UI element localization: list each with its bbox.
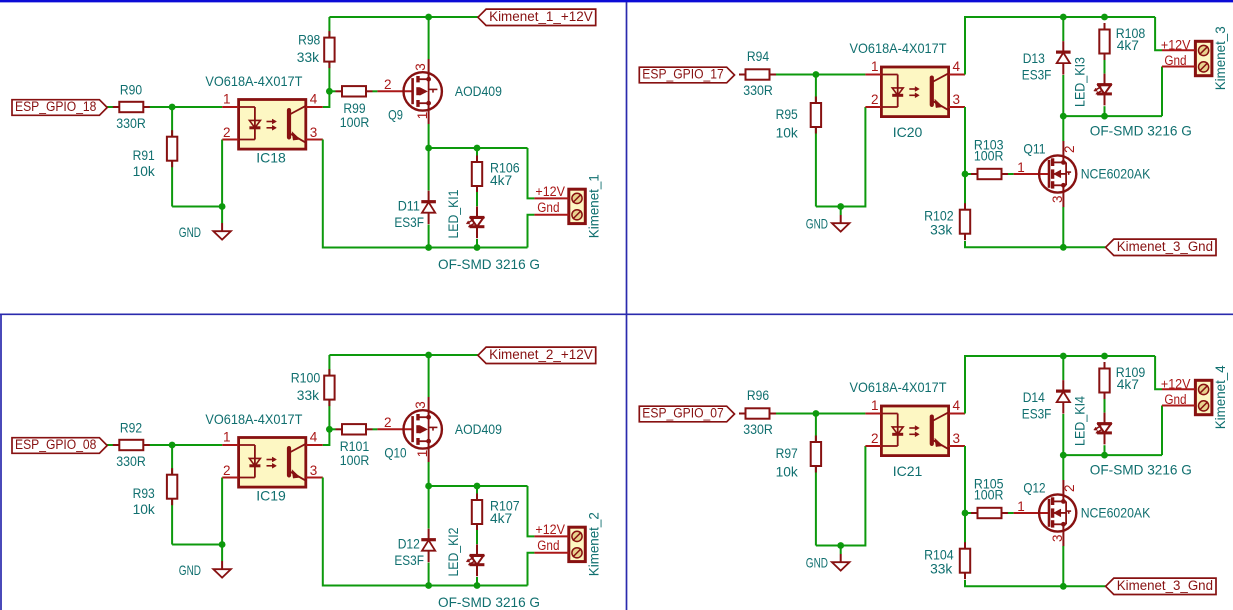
svg-text:4k7: 4k7 — [490, 510, 512, 526]
hierarchical input label ESP_GPIO_08 — [12, 437, 107, 453]
transistor Q11 NCE6020AK N-MOSFET — [1014, 141, 1151, 208]
svg-text:R90: R90 — [120, 82, 142, 98]
svg-text:GND: GND — [179, 562, 201, 578]
wire output to connector +12V pin — [528, 148, 535, 198]
svg-text:Gnd: Gnd — [1164, 53, 1186, 68]
svg-text:10k: 10k — [133, 501, 156, 517]
wire opto pin4 to gate node — [323, 91, 330, 107]
svg-text:VO618A-4X017T: VO618A-4X017T — [205, 73, 302, 89]
junction bottom rail at LED — [474, 582, 481, 589]
junction at R pulldown tap — [169, 442, 176, 449]
svg-text:OF-SMD 3216 G: OF-SMD 3216 G — [1090, 462, 1192, 478]
IC18 pin 2 — [222, 139, 238, 141]
svg-text:R94: R94 — [747, 48, 769, 64]
resistor R93 — [133, 468, 178, 517]
svg-text:2: 2 — [384, 415, 392, 430]
svg-text:R100: R100 — [291, 369, 321, 385]
svg-text:ESP_GPIO_07: ESP_GPIO_07 — [642, 406, 723, 421]
wire ESP_GPIO_17 to opto — [741, 74, 866, 76]
svg-text:R98: R98 — [298, 31, 320, 47]
IC18 pin 4 — [306, 106, 323, 108]
IC18 pin 1 — [222, 106, 238, 108]
wire pulldown to gnd node — [816, 545, 841, 547]
svg-text:2: 2 — [1062, 146, 1077, 154]
svg-text:1: 1 — [415, 450, 430, 458]
junction at pulldown tap — [813, 410, 820, 417]
junction at gnd node — [837, 542, 844, 549]
IC19 pin 3 — [306, 477, 323, 479]
svg-text:100R: 100R — [340, 452, 370, 468]
resistor R108 — [1099, 23, 1145, 60]
wire source down to return rail — [1062, 207, 1064, 247]
global label Kimenet_3_Gnd — [1106, 239, 1216, 256]
svg-text:4k7: 4k7 — [1117, 376, 1139, 392]
svg-text:2: 2 — [1062, 485, 1077, 493]
global label Kimenet_2_+12V — [478, 347, 596, 364]
wire flyback diode top — [1062, 17, 1064, 41]
sheet vertical divider — [626, 2, 628, 610]
resistor R101 — [329, 424, 377, 468]
wire bottom return rail — [323, 478, 528, 586]
transistor Q12 NCE6020AK N-MOSFET — [1014, 480, 1151, 547]
junction at gate divider — [326, 88, 333, 95]
junction load rail at diode — [1060, 113, 1067, 120]
wire gate node up to +12V rail — [328, 17, 330, 91]
junction at gnd node — [219, 541, 226, 548]
junction at pulldown tap — [813, 71, 820, 78]
wire return rail — [965, 580, 1106, 586]
wire drain to +12V rail — [428, 355, 430, 397]
svg-text:100R: 100R — [974, 487, 1004, 503]
diode D11 ES3F — [394, 191, 436, 230]
resistor R97 — [776, 436, 822, 480]
svg-text:NCE6020AK: NCE6020AK — [1081, 166, 1151, 182]
wire LED branch top — [476, 148, 478, 156]
resistor R102 gate pulldown — [924, 174, 970, 240]
wire resistor to LED — [1104, 399, 1106, 413]
svg-text:4k7: 4k7 — [490, 172, 512, 188]
svg-text:GND: GND — [806, 554, 828, 570]
hierarchical input label ESP_GPIO_18 — [12, 99, 107, 115]
svg-text:Kimenet_2: Kimenet_2 — [585, 512, 601, 576]
wire return rail — [965, 241, 1106, 247]
svg-text:1: 1 — [1017, 499, 1025, 514]
svg-text:Gnd: Gnd — [1164, 392, 1186, 407]
svg-text:1: 1 — [871, 398, 879, 413]
svg-text:330R: 330R — [116, 453, 146, 469]
resistor R99 — [329, 86, 377, 130]
svg-text:Kimenet_3_Gnd: Kimenet_3_Gnd — [1117, 239, 1213, 254]
IC19 pin 1 — [222, 444, 238, 446]
wire pulldown to gnd node — [172, 544, 222, 546]
svg-text:LED_KI4: LED_KI4 — [1071, 396, 1087, 446]
svg-text:2: 2 — [871, 431, 879, 446]
IC18 pin 3 — [306, 139, 323, 141]
optocoupler IC20 VO618A-4X017T — [850, 40, 966, 140]
junction bottom rail at diode — [425, 582, 432, 589]
junction at MOSFET drain rail — [425, 14, 432, 21]
svg-text:Q9: Q9 — [388, 106, 403, 122]
wire connector Gnd pin to load rail — [1161, 406, 1163, 456]
svg-text:Gnd: Gnd — [537, 538, 559, 553]
resistor R104 gate pulldown — [924, 513, 970, 579]
svg-text:10k: 10k — [133, 163, 156, 179]
svg-text:ESP_GPIO_08: ESP_GPIO_08 — [15, 437, 96, 452]
wire output node rail — [429, 147, 528, 149]
junction at gate divider — [326, 426, 333, 433]
resistor R106 — [472, 156, 520, 193]
transistor Q10 AOD409 P-MOSFET — [377, 397, 502, 462]
junction load rail at diode — [1060, 452, 1067, 459]
connector Kimenet_3 screw terminal — [1161, 26, 1228, 90]
junction load rail at LED — [1101, 452, 1108, 459]
svg-text:R92: R92 — [120, 420, 142, 436]
wire flyback diode top — [428, 486, 430, 529]
wire bottom rail to connector Gnd pin — [528, 553, 535, 586]
svg-text:Kimenet_4: Kimenet_4 — [1212, 365, 1228, 429]
resistor R96 — [739, 387, 776, 437]
svg-text:Kimenet_3_Gnd: Kimenet_3_Gnd — [1117, 578, 1213, 593]
svg-text:R97: R97 — [776, 445, 798, 461]
svg-text:ES3F: ES3F — [1022, 406, 1052, 422]
LED LED_KI1 — [445, 189, 484, 238]
wire bottom return rail — [323, 140, 528, 248]
svg-text:+12V: +12V — [1161, 37, 1191, 52]
junction bottom rail at diode — [425, 244, 432, 251]
connector Kimenet_4 screw terminal — [1161, 365, 1228, 429]
resistor R92 — [113, 420, 150, 469]
IC19 pin 4 — [306, 444, 323, 446]
junction output at LED branch — [474, 483, 481, 490]
wire source to output node — [428, 124, 430, 148]
IC20 pin 2 — [865, 106, 881, 108]
wire +12V rail to connector +12V pin — [1155, 356, 1162, 389]
global label Kimenet_3_Gnd — [1106, 578, 1216, 595]
optocoupler IC19 VO618A-4X017T — [205, 411, 322, 504]
Kimenet_3 pin +12V — [1162, 49, 1195, 51]
svg-text:R91: R91 — [133, 147, 155, 163]
sheet top border line — [0, 0, 1233, 2]
svg-text:3: 3 — [953, 92, 961, 107]
svg-text:33k: 33k — [930, 561, 953, 577]
svg-text:33k: 33k — [297, 49, 320, 65]
resistor R94 — [739, 48, 776, 98]
svg-text:2: 2 — [871, 92, 879, 107]
IC21 pin 4 — [949, 413, 965, 415]
svg-text:3: 3 — [1050, 195, 1065, 203]
svg-text:100R: 100R — [340, 114, 370, 130]
IC21 pin 1 — [865, 413, 881, 415]
svg-text:Kimenet_3: Kimenet_3 — [1212, 26, 1228, 90]
svg-text:D13: D13 — [1023, 50, 1045, 66]
LED LED_KI4 — [1071, 396, 1112, 446]
junction at gate node — [962, 171, 969, 178]
wire flyback diode bottom — [1062, 414, 1064, 455]
svg-text:100R: 100R — [974, 148, 1004, 164]
resistor R98 — [297, 31, 335, 68]
sheet horizontal divider — [0, 313, 1233, 315]
IC19 pin 2 — [222, 477, 238, 479]
junction return rail at source — [1060, 583, 1067, 590]
wire gnd node to opto pin2 — [841, 107, 866, 207]
wire opto pin2 down to gnd node — [221, 140, 223, 207]
svg-text:33k: 33k — [930, 222, 953, 238]
svg-text:1: 1 — [223, 430, 231, 445]
hierarchical input label ESP_GPIO_07 — [639, 406, 734, 422]
wire output to connector +12V pin — [528, 486, 535, 536]
svg-text:ESP_GPIO_18: ESP_GPIO_18 — [15, 99, 96, 114]
transistor Q9 AOD409 P-MOSFET — [377, 59, 502, 124]
svg-text:2: 2 — [223, 125, 231, 140]
svg-text:GND: GND — [806, 215, 828, 231]
svg-text:Gnd: Gnd — [537, 200, 559, 215]
wire ESP_GPIO_18 to R row — [107, 106, 223, 108]
svg-text:330R: 330R — [116, 115, 146, 131]
wire bottom rail to connector Gnd pin — [528, 215, 535, 248]
wire load rail — [1063, 454, 1162, 456]
IC21 pin 2 — [865, 445, 881, 447]
junction return rail at source — [1060, 244, 1067, 251]
svg-text:1: 1 — [223, 92, 231, 107]
wire gnd node to opto pin2 — [841, 446, 866, 546]
svg-text:OF-SMD 3216 G: OF-SMD 3216 G — [1090, 123, 1192, 139]
wire opto pin3 down to gate node — [964, 107, 966, 174]
svg-text:Kimenet_1: Kimenet_1 — [585, 174, 601, 238]
wire resistor to LED — [1104, 60, 1106, 74]
wire flyback diode top — [1062, 356, 1064, 380]
svg-text:Kimenet_2_+12V: Kimenet_2_+12V — [489, 347, 593, 362]
svg-text:GND: GND — [179, 224, 201, 240]
svg-text:4: 4 — [953, 59, 961, 74]
svg-text:Q12: Q12 — [1023, 480, 1045, 496]
diode D12 ES3F — [394, 529, 436, 568]
IC20 pin 1 — [865, 74, 881, 76]
wire ESP_GPIO_08 to R row — [107, 444, 223, 446]
svg-text:3: 3 — [310, 463, 318, 478]
svg-text:LED_KI2: LED_KI2 — [445, 527, 461, 576]
svg-text:33k: 33k — [297, 387, 320, 403]
connector Kimenet_1 screw terminal — [534, 174, 601, 238]
wire flyback diode bottom — [1062, 75, 1064, 116]
ground symbol GND — [806, 207, 850, 232]
wire drain to +12V rail — [428, 17, 430, 59]
Kimenet_3 pin Gnd — [1162, 66, 1195, 68]
svg-text:10k: 10k — [776, 125, 799, 141]
wire opto pin4 up to +12V rail — [965, 17, 1155, 75]
svg-text:R93: R93 — [133, 485, 155, 501]
svg-text:NCE6020AK: NCE6020AK — [1081, 505, 1151, 521]
svg-text:OF-SMD 3216 G: OF-SMD 3216 G — [438, 594, 540, 610]
global label Kimenet_1_+12V — [478, 9, 596, 26]
svg-text:IC21: IC21 — [893, 463, 923, 479]
svg-text:VO618A-4X017T: VO618A-4X017T — [850, 379, 947, 395]
optocoupler IC21 VO618A-4X017T — [850, 379, 966, 479]
resistor R90 — [113, 82, 150, 131]
svg-text:330R: 330R — [743, 421, 773, 437]
junction rail at LED resistor — [1101, 353, 1108, 360]
svg-text:IC18: IC18 — [256, 150, 286, 166]
junction at MOSFET drain rail — [425, 352, 432, 359]
Kimenet_1 pin Gnd — [534, 214, 568, 216]
resistor R91 — [133, 130, 178, 179]
wire +12V rail — [329, 16, 478, 18]
diode D14 ES3F — [1022, 380, 1071, 421]
wire load rail — [1063, 115, 1162, 117]
svg-text:3: 3 — [413, 401, 428, 409]
svg-text:10k: 10k — [776, 464, 799, 480]
svg-text:+12V: +12V — [535, 184, 565, 199]
junction at gnd node — [219, 203, 226, 210]
IC20 pin 3 — [949, 106, 965, 108]
svg-text:+12V: +12V — [1161, 376, 1191, 391]
svg-text:D12: D12 — [398, 536, 420, 552]
wire drain up to load rail — [1062, 116, 1064, 141]
svg-text:4: 4 — [953, 398, 961, 413]
svg-text:LED_KI3: LED_KI3 — [1071, 57, 1087, 107]
wire resistor to LED — [476, 530, 478, 544]
hierarchical input label ESP_GPIO_17 — [639, 67, 734, 83]
junction rail at flyback diode — [1060, 353, 1067, 360]
wire flyback diode bottom — [428, 225, 430, 248]
wire LED to load rail — [1104, 106, 1106, 116]
svg-text:+12V: +12V — [535, 522, 565, 537]
svg-text:D14: D14 — [1023, 389, 1045, 405]
wire drain up to load rail — [1062, 455, 1064, 480]
wire opto pin2 down to gnd node — [221, 478, 223, 545]
wire opto pin4 to gate node — [323, 429, 330, 445]
optocoupler IC18 VO618A-4X017T — [205, 73, 322, 166]
svg-text:AOD409: AOD409 — [455, 421, 502, 437]
LED LED_KI2 — [445, 527, 484, 576]
wire pulldown vertical — [171, 107, 173, 207]
Kimenet_1 pin +12V — [534, 197, 568, 199]
LED LED_KI3 — [1071, 57, 1112, 107]
wire LED to bottom rail — [476, 239, 478, 248]
svg-text:R95: R95 — [776, 106, 798, 122]
svg-text:ES3F: ES3F — [394, 552, 424, 568]
svg-text:3: 3 — [413, 63, 428, 71]
wire ESP_GPIO_07 to opto — [741, 413, 866, 415]
resistor R103 — [965, 137, 1014, 180]
junction at gate node — [962, 510, 969, 517]
svg-text:2: 2 — [384, 77, 392, 92]
wire source down to return rail — [1062, 546, 1064, 586]
wire pulldown vertical — [815, 75, 817, 207]
svg-text:VO618A-4X017T: VO618A-4X017T — [205, 411, 302, 427]
wire pulldown vertical — [171, 445, 173, 545]
wire opto pin3 down to gate node — [964, 446, 966, 513]
resistor R105 — [965, 476, 1014, 519]
junction rail at LED resistor — [1101, 14, 1108, 21]
svg-text:Q10: Q10 — [384, 444, 406, 460]
connector Kimenet_2 screw terminal — [534, 512, 601, 576]
svg-text:R96: R96 — [747, 387, 769, 403]
junction output at source — [425, 145, 432, 152]
svg-text:ES3F: ES3F — [1022, 67, 1052, 83]
ground symbol GND — [179, 545, 231, 578]
resistor R100 — [291, 369, 335, 406]
svg-text:OF-SMD 3216 G: OF-SMD 3216 G — [438, 256, 540, 272]
Kimenet_2 pin Gnd — [534, 552, 568, 554]
svg-text:3: 3 — [310, 125, 318, 140]
wire +12V rail to connector +12V pin — [1155, 17, 1162, 50]
resistor R95 — [776, 97, 822, 141]
sheet left border lower half — [0, 314, 2, 610]
Kimenet_4 pin Gnd — [1162, 405, 1195, 407]
svg-text:2: 2 — [223, 463, 231, 478]
svg-text:Kimenet_1_+12V: Kimenet_1_+12V — [489, 9, 593, 24]
junction at gnd node — [837, 203, 844, 210]
junction rail at flyback diode — [1060, 14, 1067, 21]
wire LED branch top — [476, 486, 478, 494]
svg-text:ESP_GPIO_17: ESP_GPIO_17 — [642, 67, 723, 82]
svg-text:D11: D11 — [398, 198, 420, 214]
wire gate node up to +12V rail — [328, 355, 330, 429]
svg-text:330R: 330R — [743, 82, 773, 98]
wire LED to bottom rail — [476, 577, 478, 586]
wire flyback diode top — [428, 148, 430, 191]
wire flyback diode bottom — [428, 563, 430, 586]
junction load rail at LED — [1101, 113, 1108, 120]
Kimenet_2 pin +12V — [534, 535, 568, 537]
svg-text:4: 4 — [310, 92, 318, 107]
wire pulldown vertical — [815, 414, 817, 546]
svg-text:1: 1 — [871, 59, 879, 74]
wire pulldown to gnd node — [816, 206, 841, 208]
junction output at source — [425, 483, 432, 490]
junction output at LED branch — [474, 145, 481, 152]
svg-text:ES3F: ES3F — [394, 214, 424, 230]
junction at R pulldown tap — [169, 104, 176, 111]
wire output node rail — [429, 485, 528, 487]
svg-text:4: 4 — [310, 430, 318, 445]
wire +12V rail — [329, 354, 478, 356]
svg-text:Q11: Q11 — [1023, 141, 1045, 157]
svg-text:4k7: 4k7 — [1117, 37, 1139, 53]
IC21 pin 3 — [949, 445, 965, 447]
svg-text:1: 1 — [1017, 160, 1025, 175]
svg-text:AOD409: AOD409 — [455, 83, 502, 99]
junction bottom rail at LED — [474, 244, 481, 251]
ground symbol GND — [806, 546, 850, 571]
svg-text:IC19: IC19 — [256, 488, 286, 504]
resistor R107 — [472, 494, 520, 531]
svg-text:3: 3 — [953, 431, 961, 446]
wire pulldown to gnd node — [172, 206, 222, 208]
wire resistor to LED — [476, 192, 478, 206]
svg-text:3: 3 — [1050, 534, 1065, 542]
svg-text:LED_KI1: LED_KI1 — [445, 189, 461, 238]
svg-text:IC20: IC20 — [893, 124, 923, 140]
wire opto pin4 up to +12V rail — [965, 356, 1155, 414]
ground symbol GND — [179, 207, 231, 240]
wire connector Gnd pin to load rail — [1161, 67, 1163, 117]
svg-text:VO618A-4X017T: VO618A-4X017T — [850, 40, 947, 56]
wire LED to load rail — [1104, 445, 1106, 455]
diode D13 ES3F — [1022, 41, 1071, 82]
resistor R109 — [1099, 362, 1145, 399]
IC20 pin 4 — [949, 74, 965, 76]
Kimenet_4 pin +12V — [1162, 388, 1195, 390]
wire source to output node — [428, 462, 430, 486]
svg-text:1: 1 — [415, 112, 430, 120]
